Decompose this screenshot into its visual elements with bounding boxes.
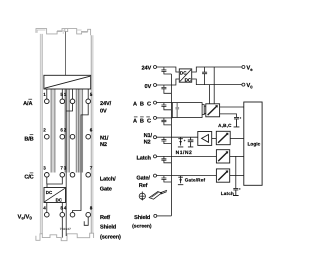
terminal Shield: [154, 214, 157, 217]
svg-text:Gate/: Gate/: [136, 175, 150, 182]
svg-text:A,B,C: A,B,C: [218, 123, 232, 128]
capacitor Abar line: [161, 118, 171, 125]
clamp contact row3 c3: [70, 173, 75, 178]
wire 0V to DC/DC: [157, 79, 180, 85]
wire inside band 3: [78, 89, 80, 173]
DIN rail top profile inner lines: [37, 30, 87, 34]
svg-text:1: 1: [64, 92, 67, 97]
svg-text:DC: DC: [56, 197, 63, 202]
clamp contact row1 c2: [60, 99, 65, 104]
svg-text:24V: 24V: [142, 66, 152, 72]
module right outer edge: [92, 35, 94, 233]
wire Latch to optocoupler U5: [157, 155, 217, 157]
svg-text:N1/: N1/: [144, 132, 153, 139]
termination resistor: [176, 103, 178, 118]
clamp contact row1 c1: [45, 99, 50, 104]
svg-text:DC: DC: [185, 78, 192, 83]
comparator triangle: [202, 135, 209, 143]
terminal Ve output: [242, 66, 245, 69]
wire A to receiver: [157, 102, 173, 104]
svg-text:Ref/: Ref/: [100, 214, 111, 221]
wire DC/DC out top to V+ rail: [192, 67, 242, 72]
electronics box diagonal: [45, 76, 91, 88]
svg-text:(screen): (screen): [100, 233, 121, 240]
svg-text:DC: DC: [180, 71, 187, 76]
tool turn icon: [139, 192, 145, 201]
capacitor across output rails: [202, 67, 207, 85]
svg-text:N2: N2: [100, 142, 107, 148]
internal 0V rail: [170, 74, 172, 216]
svg-text:Latch: Latch: [136, 155, 151, 162]
clamp contact row2 c4: [86, 134, 91, 139]
clamp contact row3 c2: [60, 173, 65, 178]
wire jog clamp5b row1 down-left and long drop: [73, 104, 89, 213]
asterisk mark Latch cap: [239, 188, 241, 190]
terminal A B C: [154, 101, 157, 104]
wire Gate to optocoupler U6: [157, 175, 217, 177]
svg-text:Shield: Shield: [100, 224, 117, 231]
clamp contact row2 c3: [70, 134, 75, 139]
asterisk mark ABC cap: [240, 117, 242, 119]
wire Shield to rail: [157, 215, 172, 217]
svg-text:Latch/: Latch/: [100, 176, 116, 183]
threshold symbol N1: [178, 137, 183, 147]
wire U5 output to Logic: [230, 155, 244, 157]
differential receiver box: [172, 103, 202, 118]
wire N1 to comparator: [157, 136, 198, 138]
wire DC/DC output to clamp4: [46, 203, 48, 213]
clamp circles grid: [45, 99, 91, 217]
clamp contact row3 c4: [86, 173, 91, 178]
svg-text:Gate: Gate: [100, 187, 112, 193]
wire DC/DC out bottom to V0 rail: [192, 79, 242, 85]
threshold symbol Gate/Ref: [178, 176, 183, 185]
terminal 24V: [154, 66, 157, 69]
svg-text:B/B: B/B: [24, 136, 33, 143]
feed V+ rail to optocoupler U3: [213, 67, 215, 104]
svg-text:Gate/Ref: Gate/Ref: [185, 178, 206, 183]
wire Latch output branch down: [235, 156, 237, 188]
wire comparator to optocoupler U4: [212, 137, 217, 139]
svg-text:A B C: A B C: [133, 119, 152, 125]
DIN rail bottom profile: [36, 233, 94, 241]
svg-text:3: 3: [64, 166, 67, 171]
terminal Latch: [154, 155, 157, 158]
module left inner edge: [41, 34, 43, 234]
svg-text:A B C: A B C: [133, 101, 152, 107]
svg-text:0V: 0V: [144, 84, 151, 90]
clamp contact row3 c1: [45, 173, 50, 178]
svg-text:6: 6: [90, 127, 93, 132]
receiver output tab: [202, 105, 204, 115]
chassis capacitor A,B,C: [234, 117, 240, 127]
svg-text:4: 4: [64, 205, 67, 210]
svg-text:750637: 750637: [60, 227, 71, 231]
wire Abar to receiver: [157, 117, 173, 119]
power jumper gray band 3: [76, 89, 83, 173]
wire box to clamp 5 row1: [61, 89, 63, 99]
capacitor Gate line: [161, 176, 171, 182]
DC/DC U2 diagonal: [180, 70, 191, 82]
DIN rail top profile: [36, 29, 91, 36]
terminal Gate/Ref: [154, 174, 157, 177]
screwdriver blade icon: [149, 190, 167, 199]
wire tab to optocoupler U3 lower: [204, 113, 206, 115]
DC/DC module diagonal: [45, 188, 65, 201]
module right inner edge: [90, 35, 92, 233]
wire box to clamp 1 row1: [46, 89, 48, 99]
svg-text:Latch: Latch: [221, 191, 234, 196]
wire DC/DC input stub: [46, 184, 48, 188]
clamp contact row2 c1: [45, 134, 50, 139]
capacitor 0V line: [161, 85, 171, 93]
svg-text:1: 1: [43, 92, 46, 97]
wire row3 clamps to DC/DC input: [47, 177, 63, 184]
terminal V0 output: [242, 83, 245, 86]
svg-text:7: 7: [90, 166, 93, 171]
svg-text:4: 4: [43, 205, 46, 210]
clamp contact row4 c4: [86, 212, 91, 217]
wire tab to optocoupler U3 upper: [204, 105, 206, 107]
svg-text:V0: V0: [246, 83, 253, 89]
capacitor 24V line: [161, 67, 171, 74]
svg-text:N1/N2: N1/N2: [176, 150, 193, 156]
wire U3 lower to chassis capacitor: [220, 114, 237, 118]
DIN rail top profile notch: [65, 29, 68, 32]
svg-text:Ve: Ve: [246, 66, 253, 72]
clamp contact row1 c4: [86, 99, 91, 104]
power jumper gray band 1: [51, 89, 55, 173]
clamp contact row4 c1: [45, 212, 50, 217]
asterisk mark N1: [184, 140, 186, 142]
svg-text:C/C: C/C: [24, 174, 33, 181]
svg-text:N2: N2: [144, 139, 151, 145]
wire DC/DC output to clamp8: [61, 203, 63, 213]
clamp contact row1 c3: [70, 99, 75, 104]
svg-text:(screen): (screen): [132, 224, 152, 230]
svg-text:A/A: A/A: [23, 100, 32, 107]
svg-text:Ref: Ref: [139, 182, 148, 189]
clamp numbers: [43, 92, 92, 210]
optocoupler U6 (Gate/Ref): [216, 169, 229, 182]
center stem wire from rail to electronics box: [65, 32, 67, 76]
svg-text:3: 3: [43, 166, 46, 171]
DC/DC converter box in module: [44, 188, 66, 203]
svg-text:Logic: Logic: [248, 141, 261, 147]
clamp contact row4 c3: [70, 212, 75, 217]
feed V0 rail to optocoupler U3: [209, 85, 211, 104]
wire clamp8 row4 tail to bottom: [61, 217, 63, 238]
wire jog clamp1b row1 down-left: [66, 104, 72, 111]
svg-text:0V: 0V: [100, 109, 107, 115]
electronics function box U-left: [44, 75, 91, 89]
capacitor N1 line: [161, 137, 171, 143]
clamp contact row2 c2: [60, 134, 65, 139]
svg-text:24V/: 24V/: [100, 100, 112, 107]
terminal Abar Bbar Cbar: [154, 116, 157, 119]
capacitor Latch line: [161, 156, 171, 162]
svg-text:N1/: N1/: [100, 135, 109, 142]
DC/DC converter U2: [179, 69, 191, 82]
power jumper gray band 2: [65, 89, 70, 173]
clamp contact row4 c2: [60, 212, 65, 217]
wire box to clamp 1b row1: [72, 89, 74, 99]
svg-text:2: 2: [43, 127, 46, 132]
wire center vertical down module: [65, 89, 67, 236]
capacitor symbol N2: [188, 137, 194, 147]
module left outer edge: [39, 34, 41, 234]
wire U4 output to Logic: [230, 137, 244, 139]
svg-text:Ve/V0: Ve/V0: [18, 213, 33, 220]
wire clamp8b row4 hook: [84, 217, 88, 225]
optocoupler U4 (N1/N2): [216, 131, 230, 144]
chassis capacitor Latch: [233, 188, 239, 195]
terminal 0V: [154, 84, 157, 87]
svg-text:Shield: Shield: [134, 214, 151, 221]
capacitor A line: [161, 103, 171, 110]
svg-text:5: 5: [90, 92, 93, 97]
terminal N1/N2: [154, 136, 157, 139]
svg-text:8: 8: [90, 205, 93, 210]
wire U3 output to Logic: [220, 106, 244, 108]
svg-text:DC: DC: [46, 190, 53, 195]
svg-text:2: 2: [64, 127, 67, 132]
comparator box N1/N2: [198, 132, 212, 146]
optocoupler U5 (Latch): [216, 150, 229, 163]
optocoupler U3 (A/B/C channel): [206, 104, 220, 117]
wire 24V to DC/DC: [157, 67, 180, 72]
wire box to clamp 5b row1: [87, 89, 89, 99]
wire U6 output to Logic: [230, 175, 244, 177]
Logic box U7: [244, 102, 262, 185]
